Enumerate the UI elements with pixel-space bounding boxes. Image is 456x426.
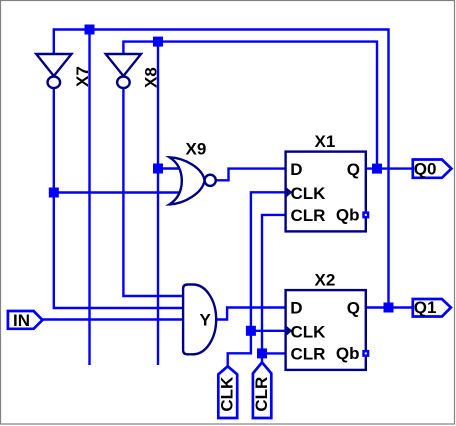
wire Q1 output — [366, 306, 413, 308]
wire net2: X8 input, second horizontal, vertical to Q0 row — [123, 42, 377, 169]
svg-text:CLR: CLR — [291, 345, 326, 364]
wire X7 output down and to Y gate input — [54, 89, 183, 309]
flip-flop U X1 — [286, 132, 370, 231]
svg-text:Q1: Q1 — [414, 298, 437, 317]
nor gate X9 — [170, 140, 216, 205]
node junction CLR net — [257, 348, 267, 358]
wire Y output to X2 D — [216, 308, 286, 320]
inverter X7 — [36, 54, 92, 88]
wire X8 output down and to Y gate input — [123, 89, 183, 297]
wire net2 vertical stub — [157, 42, 159, 365]
node junction CLK net — [246, 326, 256, 336]
port flag Q1 — [413, 298, 451, 317]
svg-text:X8: X8 — [142, 67, 161, 88]
port flag CLR — [252, 362, 271, 418]
wire net1: X7 input, top horizontal, right vertical to Q1 row — [54, 30, 389, 308]
port flag IN — [8, 311, 43, 330]
flip-flop U X2 — [286, 271, 370, 370]
wire CLK net: X1 CLK, down, X2 CLK, to CLK flag — [228, 192, 286, 366]
svg-text:Q0: Q0 — [414, 159, 437, 178]
svg-text:CLK: CLK — [291, 184, 327, 203]
svg-text:X1: X1 — [315, 132, 336, 151]
wire Q0 output — [366, 167, 413, 169]
svg-text:D: D — [290, 160, 302, 179]
svg-text:X9: X9 — [186, 140, 207, 159]
and gate Y — [183, 285, 216, 355]
svg-text:CLR: CLR — [252, 377, 271, 412]
svg-text:CLR: CLR — [291, 206, 326, 225]
svg-text:Q: Q — [347, 299, 360, 318]
wire CLR net: X1 CLR, down to CLR flag — [262, 215, 286, 363]
node junction X7out/X9 input — [49, 188, 59, 198]
node junction net2/X9 input — [153, 164, 163, 174]
port flag Q0 — [413, 159, 452, 178]
wire X9 output to X1 D — [216, 169, 286, 181]
node junction net2 — [153, 37, 163, 47]
svg-text:Qb: Qb — [336, 205, 360, 224]
svg-text:X7: X7 — [73, 66, 92, 87]
svg-text:IN: IN — [13, 311, 30, 330]
wire CLK net branch to X2 CLK — [251, 330, 286, 332]
svg-text:Q: Q — [347, 160, 360, 179]
node junction net1 — [85, 25, 95, 35]
svg-text:Y: Y — [200, 311, 212, 330]
svg-text:CLK: CLK — [291, 322, 327, 341]
pin CLK (X1) with edge marker — [287, 188, 293, 198]
node junction Q0/net2 — [372, 164, 382, 174]
svg-text:D: D — [290, 299, 302, 318]
pin CLK (X2) with edge marker — [287, 326, 293, 336]
inverter X8 — [106, 54, 161, 88]
wire net1 vertical stub — [88, 30, 90, 366]
svg-text:CLK: CLK — [218, 376, 237, 412]
svg-text:Qb: Qb — [336, 344, 360, 363]
port flag CLK — [218, 366, 238, 418]
wire IN to Y gate input — [43, 318, 184, 320]
node junction Q1/net1 — [384, 303, 394, 313]
wire X9 upper input from net2 — [158, 167, 182, 169]
wire CLR net branch to X2 CLR — [262, 352, 286, 354]
wire X9 lower input from X7 output — [54, 191, 182, 193]
svg-text:X2: X2 — [315, 271, 336, 290]
